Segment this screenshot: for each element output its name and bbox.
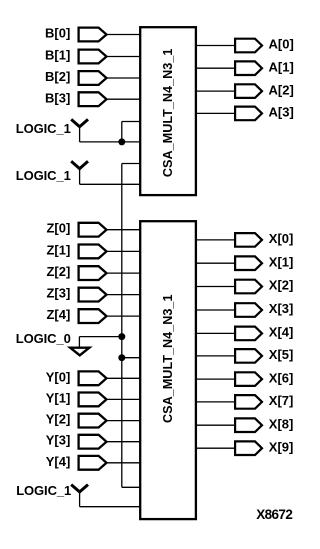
- svg-text:CSA_MULT_N4_N3_1: CSA_MULT_N4_N3_1: [160, 295, 175, 424]
- svg-text:X[2]: X[2]: [269, 278, 294, 293]
- svg-text:LOGIC_0: LOGIC_0: [16, 331, 71, 346]
- svg-text:LOGIC_1: LOGIC_1: [16, 483, 71, 498]
- svg-text:X[1]: X[1]: [269, 254, 294, 269]
- svg-text:X[4]: X[4]: [269, 325, 294, 340]
- svg-text:X8672: X8672: [256, 507, 292, 522]
- svg-text:A[3]: A[3]: [269, 105, 294, 120]
- svg-text:Y[0]: Y[0]: [46, 369, 71, 384]
- svg-text:X[6]: X[6]: [269, 370, 294, 385]
- svg-text:A[2]: A[2]: [269, 82, 294, 97]
- svg-text:X[7]: X[7]: [269, 393, 294, 408]
- svg-text:Y[2]: Y[2]: [46, 412, 71, 427]
- svg-text:Z[4]: Z[4]: [46, 307, 70, 322]
- svg-text:B[0]: B[0]: [45, 26, 70, 41]
- svg-text:Z[2]: Z[2]: [46, 264, 70, 279]
- svg-text:A[1]: A[1]: [269, 59, 294, 74]
- svg-text:B[1]: B[1]: [45, 48, 70, 63]
- svg-text:LOGIC_1: LOGIC_1: [16, 168, 71, 183]
- svg-text:Z[0]: Z[0]: [46, 221, 70, 236]
- svg-text:X[5]: X[5]: [269, 347, 294, 362]
- svg-text:X[3]: X[3]: [269, 301, 294, 316]
- svg-text:X[8]: X[8]: [269, 416, 294, 431]
- svg-text:LOGIC_1: LOGIC_1: [16, 121, 71, 136]
- svg-text:Z[1]: Z[1]: [46, 242, 70, 257]
- svg-text:B[3]: B[3]: [45, 90, 70, 105]
- svg-text:B[2]: B[2]: [45, 69, 70, 84]
- svg-text:Y[4]: Y[4]: [46, 454, 71, 469]
- svg-text:Y[3]: Y[3]: [46, 433, 71, 448]
- svg-text:Y[1]: Y[1]: [46, 390, 71, 405]
- svg-text:X[9]: X[9]: [269, 439, 294, 454]
- svg-text:CSA_MULT_N4_N3_1: CSA_MULT_N4_N3_1: [160, 49, 175, 178]
- svg-text:X[0]: X[0]: [269, 231, 294, 246]
- svg-text:A[0]: A[0]: [269, 37, 294, 52]
- svg-text:Z[3]: Z[3]: [46, 286, 70, 301]
